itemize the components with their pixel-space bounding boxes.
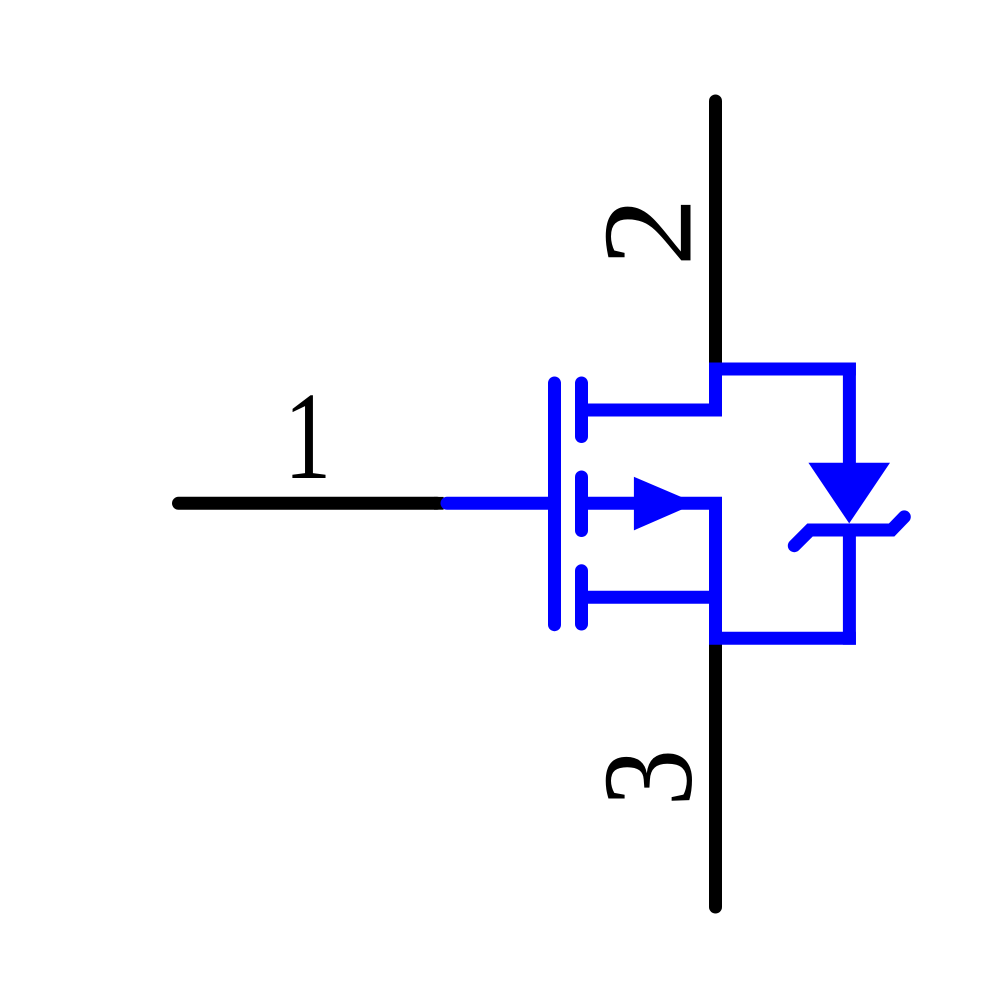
transistor Q1: gate lead <box>447 497 555 510</box>
diode D1: cathode bar with zener wings <box>794 517 904 546</box>
diode D1: anode triangle <box>808 463 890 524</box>
wire pin 1 (left horizontal black wire) <box>179 497 438 510</box>
transistor Q1: channel segment top (drain) <box>575 383 588 437</box>
svg-text:1: 1 <box>284 366 331 505</box>
wire: body connection with down leg to source node <box>582 503 856 638</box>
transistor Q1: channel segment bottom (source) <box>575 571 588 624</box>
svg-text:2: 2 <box>576 197 718 266</box>
transistor Q1: channel segment middle (body) <box>575 477 588 531</box>
svg-text:3: 3 <box>578 749 719 806</box>
diode D1: anode lead (top) <box>843 363 856 463</box>
diode D1: cathode lead (bottom) <box>843 530 856 645</box>
transistor Q1: body arrow <box>634 477 696 531</box>
wire pin 3 (bottom vertical black wire) <box>709 641 722 907</box>
wire pin 2 (top vertical black wire) <box>709 101 722 369</box>
wire: source connection <box>582 591 716 604</box>
wire: drain connection to pin 2 node and diode top <box>582 369 856 410</box>
transistor Q1: gate bar <box>548 383 561 625</box>
